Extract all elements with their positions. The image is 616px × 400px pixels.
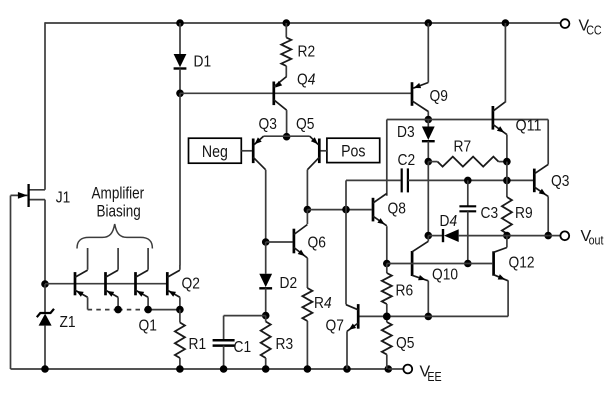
transistor Q3 (input pair) xyxy=(253,136,265,170)
resistor R6 xyxy=(382,273,392,304)
wire Neg to Q3 base xyxy=(241,150,252,152)
resistor R3 xyxy=(261,322,271,359)
transistor J1 (JFET) xyxy=(11,184,29,207)
svg-text:D1: D1 xyxy=(194,54,212,71)
wire R7 right lead xyxy=(499,161,507,163)
svg-text:R4: R4 xyxy=(314,295,332,312)
wire Q2 emitter drop xyxy=(179,297,181,309)
wire Q7 emitter down to VEE rail xyxy=(346,331,348,369)
wire C1 junction horizontal xyxy=(224,315,266,317)
svg-text:Q6: Q6 xyxy=(308,235,326,252)
node junction output node at R9 xyxy=(503,232,511,240)
svg-text:Q11: Q11 xyxy=(516,118,542,135)
wire J1 source lead xyxy=(29,199,45,201)
svg-text:Pos: Pos xyxy=(341,143,365,161)
wire C3 bottom lead xyxy=(467,211,469,263)
node junction VEE rail C1 xyxy=(220,365,228,373)
node junction D4 cathode Q10 collector xyxy=(425,232,433,240)
svg-text:Q10: Q10 xyxy=(432,267,458,284)
transistor bias B (unlabeled) xyxy=(106,270,119,297)
wire Z1 down to VEE rail xyxy=(44,326,46,369)
wire Q6 base junction down to D2 xyxy=(265,242,267,274)
resistor R1 xyxy=(175,323,185,359)
label Q6 xyxy=(308,235,326,252)
label C2 xyxy=(398,152,416,169)
svg-text:J1: J1 xyxy=(56,189,71,206)
label VEE xyxy=(420,364,442,384)
svg-text:D4: D4 xyxy=(440,213,458,230)
wire bias A collector stub xyxy=(87,248,89,270)
diode D3 xyxy=(422,127,435,142)
label Q8 xyxy=(388,201,406,218)
wire bias emitter rail dashed 2 xyxy=(118,309,148,311)
capacitor C1 xyxy=(213,340,235,345)
wire Q12 emitter down xyxy=(507,281,509,317)
wire diff emitters horizontal xyxy=(264,135,310,137)
wire Q8 collector riser xyxy=(386,120,388,196)
svg-text:Z1: Z1 xyxy=(60,314,76,331)
label R3 xyxy=(276,336,294,353)
label Q5 input xyxy=(296,116,314,133)
wire C2 right line to Q3 base xyxy=(408,179,533,181)
wire R7 left lead xyxy=(428,161,437,163)
label Q3 input xyxy=(259,116,277,133)
transistor Q3 (output) xyxy=(534,164,548,196)
node junction top rail at Q9 emitter xyxy=(425,19,433,27)
resistor R9 xyxy=(502,197,512,234)
wire Q10 emitter down xyxy=(427,281,429,317)
wire Q3 output emitter down xyxy=(547,196,549,235)
wire R1 to VEE rail xyxy=(179,358,181,369)
wire gate rail down left side xyxy=(10,196,12,370)
node junction diff pair emitters xyxy=(283,133,291,141)
transistor bias A (unlabeled) xyxy=(75,270,88,297)
wire C1 top lead xyxy=(223,316,225,340)
wire Q8 emitter down to Q10 base xyxy=(386,226,388,263)
wire R6 top lead xyxy=(386,264,388,274)
node junction top rail at R2 xyxy=(283,19,291,27)
label D1 xyxy=(194,54,212,71)
node junction VEE rail R1 xyxy=(176,365,184,373)
svg-text:D2: D2 xyxy=(280,275,298,292)
wire Q9 collector rail xyxy=(387,119,548,121)
label Q10 xyxy=(432,267,458,284)
svg-text:R7: R7 xyxy=(454,139,472,156)
svg-text:R2: R2 xyxy=(298,44,316,61)
label Z1 xyxy=(60,314,76,331)
svg-text:C1: C1 xyxy=(234,339,252,356)
label Vout xyxy=(581,228,604,248)
wire Q8 base line xyxy=(307,209,372,211)
wire Q11 emitter line through junctions xyxy=(506,162,508,197)
label Q3 output xyxy=(551,173,569,190)
wire R6 bottom lead xyxy=(386,304,388,316)
svg-text:Biasing: Biasing xyxy=(97,203,141,221)
brace amplifier biasing xyxy=(77,224,152,249)
label J1 xyxy=(56,189,71,206)
wire R9 bottom to output junction xyxy=(506,234,508,236)
svg-text:Q8: Q8 xyxy=(388,201,406,218)
diode D4 xyxy=(443,229,459,242)
svg-text:CC: CC xyxy=(586,23,602,37)
wire Q6 emitter down to R4 xyxy=(306,258,308,288)
wire Q9 emitter from VCC rail xyxy=(427,23,429,83)
wire junction down to R3 xyxy=(265,316,267,322)
wire D2 to C1 junction xyxy=(265,288,267,315)
resistor R2 xyxy=(281,38,291,67)
wire D1 top lead xyxy=(179,23,181,54)
wire Q3 collector down to Q6 base xyxy=(265,170,267,242)
transistor Q1 xyxy=(136,270,149,297)
svg-text:Q12: Q12 xyxy=(509,255,535,272)
wire C1 bottom lead xyxy=(223,346,225,369)
node junction R7 Q11 emitter xyxy=(503,158,511,166)
label Amplifier xyxy=(92,185,145,203)
node Neg input box xyxy=(189,138,242,163)
wire R2 to Q4 emitter xyxy=(285,66,287,77)
svg-text:Q1: Q1 xyxy=(139,318,157,335)
wire J1 source down to bias rail xyxy=(44,200,46,284)
svg-text:C2: C2 xyxy=(398,152,416,169)
wire D1 to base rail junction xyxy=(179,69,181,94)
wire R4 to VEE rail xyxy=(306,321,308,369)
wire Q11 emitter down xyxy=(506,135,508,162)
node junction emitter rail at Q1 xyxy=(114,306,122,314)
node junction C3 to base line xyxy=(464,260,472,268)
transistor Q4 xyxy=(274,77,287,111)
capacitor C3 xyxy=(459,206,476,211)
terminal VCC xyxy=(561,19,570,28)
node junction VEE rail R3 xyxy=(262,365,270,373)
wire bias emitter rail dashed 1 xyxy=(88,309,119,311)
node junction VEE rail Q7 emitter xyxy=(343,365,351,373)
node junction R6 R5 rail xyxy=(383,313,391,321)
node junction Q9 collector xyxy=(425,116,433,124)
label Q4 xyxy=(297,72,315,89)
svg-text:Neg: Neg xyxy=(202,143,228,161)
resistor R7 xyxy=(438,157,499,167)
label Q2 xyxy=(182,276,200,293)
transistor Q10 xyxy=(412,241,428,280)
svg-text:Q5: Q5 xyxy=(296,116,314,133)
terminal VEE xyxy=(403,365,412,374)
wire bias A emitter drop xyxy=(87,297,89,309)
label R9 xyxy=(515,205,533,222)
svg-text:Q7: Q7 xyxy=(326,318,344,335)
label R7 xyxy=(454,139,472,156)
transistor Q5 (input pair) xyxy=(307,136,319,170)
wire Q5 collector down xyxy=(306,170,308,210)
wire Q1 collector stub xyxy=(147,248,149,270)
svg-text:Q4: Q4 xyxy=(297,72,315,89)
svg-text:EE: EE xyxy=(427,370,441,384)
diode D1 xyxy=(174,54,187,69)
transistor Q2 xyxy=(167,270,180,297)
svg-text:Q3: Q3 xyxy=(259,116,277,133)
node junction Q8 base at Q7 collector riser xyxy=(342,206,350,214)
wire top VCC rail xyxy=(45,22,561,24)
wire Q5 base to Pos xyxy=(321,150,327,152)
label C3 xyxy=(481,205,499,222)
label R2 xyxy=(298,44,316,61)
wire D3 to C2 junction xyxy=(427,141,429,161)
transistor Q6 xyxy=(294,225,308,259)
wire D4 anode line to output node xyxy=(459,235,549,237)
wire R2 top lead xyxy=(285,23,287,38)
diode D2 xyxy=(259,274,272,289)
label D3 xyxy=(397,124,415,141)
label Q9 xyxy=(430,88,448,105)
wire C2 left lead xyxy=(346,179,401,181)
wire Q11 collector up to VCC xyxy=(504,23,506,103)
wire bias B emitter drop xyxy=(117,297,119,309)
wire bias base rail xyxy=(45,283,167,285)
svg-text:Amplifier: Amplifier xyxy=(92,185,145,203)
node junction emitter rail right xyxy=(144,306,152,314)
label R4 xyxy=(314,295,332,312)
node junction D1 base rail xyxy=(176,90,184,98)
wire Q10 collector up to D4 junction xyxy=(427,236,429,242)
node junction Q10 base R6 xyxy=(383,260,391,268)
svg-text:R1: R1 xyxy=(189,336,207,353)
label R1 xyxy=(189,336,207,353)
node junction VEE rail R5 xyxy=(385,365,393,373)
wire left rail from VCC corner down to J1 drain xyxy=(44,22,46,190)
wire bias B collector stub xyxy=(117,248,119,270)
label Q7 xyxy=(326,318,344,335)
label Q1 xyxy=(139,318,157,335)
wire Q4 collector down to diff pair xyxy=(286,110,288,137)
node junction Q5 collector / Q8 base xyxy=(304,206,312,214)
svg-text:Q9: Q9 xyxy=(430,88,448,105)
wire Q12 collector up to output node xyxy=(506,236,508,248)
wire Q6 base lead xyxy=(266,241,293,243)
svg-text:C3: C3 xyxy=(481,205,499,222)
wire Vout stub xyxy=(548,235,560,237)
diode Z1 (zener) xyxy=(37,309,54,326)
svg-text:Q3: Q3 xyxy=(551,173,569,190)
node junction Q6 base xyxy=(262,238,270,246)
label D2 xyxy=(280,275,298,292)
wire bias rail down to Z1 xyxy=(44,284,46,313)
node junction top rail at Q11 collector xyxy=(502,19,510,27)
transistor Q7 xyxy=(346,304,358,331)
node Pos input box xyxy=(327,138,380,162)
label C1 xyxy=(234,339,252,356)
wire Q10 Q12 base line xyxy=(387,263,492,265)
svg-text:out: out xyxy=(589,234,604,248)
transistor Q9 xyxy=(412,82,428,111)
svg-text:Q2: Q2 xyxy=(182,276,200,293)
node junction bias base rail at J1 source xyxy=(41,280,49,288)
resistor R5 (labeled Q5) xyxy=(382,322,392,355)
svg-text:D3: D3 xyxy=(397,124,415,141)
wire R5 top lead xyxy=(386,316,388,322)
wire base rail Q4-Q9 xyxy=(180,92,411,94)
node junction emitter rail at R1 xyxy=(176,306,184,314)
capacitor C2 xyxy=(402,168,408,192)
node junction C2 line at Q11 emitter line xyxy=(503,177,511,185)
node junction Vout at Q3 emitter xyxy=(544,232,552,240)
resistor R4 xyxy=(302,288,312,321)
label Biasing xyxy=(97,203,141,221)
wire Q3 output collector riser xyxy=(547,120,549,165)
label Q5 resistor xyxy=(396,335,414,352)
wire bias emitter rail solid xyxy=(148,309,180,311)
wire Q9 collector down xyxy=(427,111,429,119)
wire R3 to VEE rail xyxy=(265,358,267,369)
svg-text:R9: R9 xyxy=(515,205,533,222)
wire D3 junction down to D4 junction xyxy=(427,162,429,236)
wire VEE bottom rail xyxy=(11,368,389,370)
wire Q12 emitter rail to Q7 xyxy=(360,315,509,317)
wire Q2 collector up to D1 line xyxy=(179,265,181,270)
transistor Q12 xyxy=(494,248,509,281)
wire J1 drain lead xyxy=(29,189,45,191)
wire Q6 collector up xyxy=(306,210,308,224)
label Q12 xyxy=(509,255,535,272)
wire C3 top lead xyxy=(467,180,469,206)
node junction C2 line at C3 xyxy=(464,177,472,185)
label Q11 xyxy=(516,118,542,135)
node junction D3 R7 xyxy=(425,158,433,166)
label D4 xyxy=(440,213,458,230)
svg-text:R3: R3 xyxy=(276,336,294,353)
label R6 xyxy=(396,283,414,300)
node junction C1 top xyxy=(262,312,270,320)
wire VEE terminal stub xyxy=(388,368,403,370)
node junction VEE rail R4 xyxy=(304,365,312,373)
wire D4 cathode lead xyxy=(428,235,442,237)
terminal Vout xyxy=(560,231,569,240)
wire D1 junction down to Q2 collector xyxy=(179,93,181,265)
wire Q1 emitter drop xyxy=(147,297,149,309)
transistor Q11 xyxy=(493,102,507,135)
wire D3 top lead xyxy=(427,120,429,127)
transistor Q8 xyxy=(373,193,387,225)
wire Q7 collector riser xyxy=(345,180,347,304)
wire R5 bottom lead xyxy=(386,355,388,370)
svg-text:R6: R6 xyxy=(396,283,414,300)
wire R1 top lead xyxy=(179,310,181,323)
node junction emitter rail at R5 xyxy=(383,313,391,321)
svg-text:Q5: Q5 xyxy=(396,335,414,352)
node junction VEE rail Z1 xyxy=(41,365,49,373)
node junction Q10 emitter rail xyxy=(425,313,433,321)
label VCC xyxy=(579,18,602,38)
node junction top rail at D1 xyxy=(176,19,184,27)
